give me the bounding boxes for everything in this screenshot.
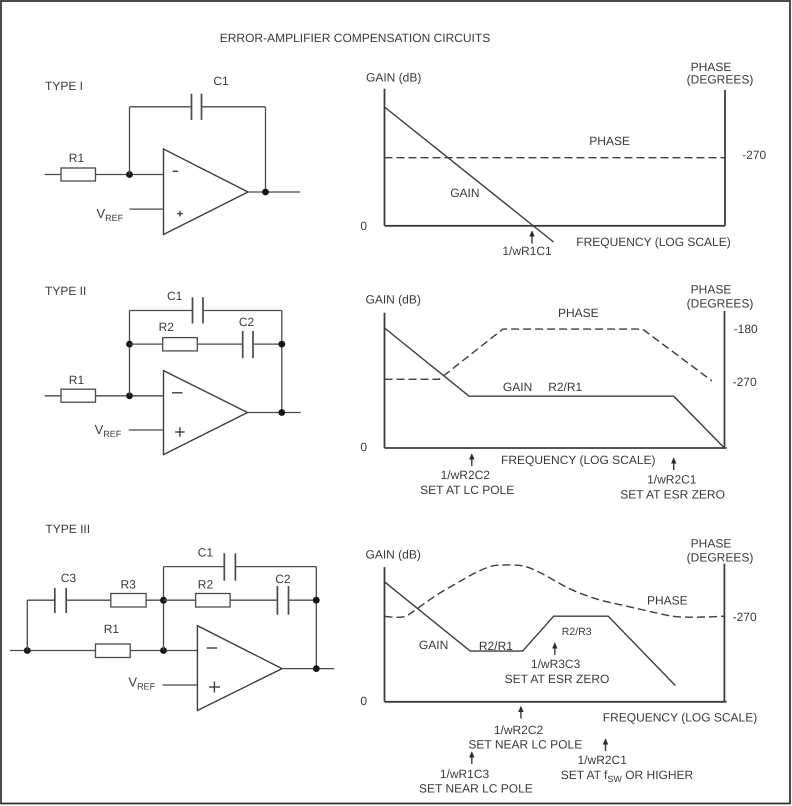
arrow at 1/wR1C3 — [469, 751, 474, 764]
capacitor C1 (type III) — [198, 546, 236, 581]
svg-text:0: 0 — [360, 440, 367, 454]
svg-text:PHASE: PHASE — [691, 283, 732, 297]
wire: top feedback right segment (III) — [235, 566, 316, 568]
resistor R1 (type III) — [96, 644, 131, 658]
wire: top feedback left segment (III) — [164, 566, 225, 568]
arrow at 1/wR2C1 — [671, 457, 676, 470]
svg-text:TYPE II: TYPE II — [45, 284, 86, 298]
arrow at 1/wR2C2 (below axis) — [518, 706, 523, 719]
wire: R3 to center node — [146, 599, 163, 601]
gain curve — [385, 107, 554, 242]
node: input junction (III) — [24, 647, 31, 654]
svg-text:-270: -270 — [733, 610, 757, 624]
frequency axis (III) — [385, 701, 727, 703]
wire: R2 to C2 (III) — [230, 599, 277, 601]
wire: VREF to non-inverting input — [130, 208, 164, 210]
svg-text:TYPE III: TYPE III — [45, 522, 90, 536]
svg-text:1/wR1C3: 1/wR1C3 — [440, 767, 490, 781]
svg-text:FREQUENCY (LOG SCALE): FREQUENCY (LOG SCALE) — [603, 711, 757, 725]
wire: C3 to R3 — [66, 599, 111, 601]
svg-text:R1: R1 — [69, 151, 85, 165]
resistor R2 — [163, 338, 198, 351]
svg-text:R2: R2 — [198, 578, 214, 592]
op-amp U3 — [197, 626, 282, 711]
svg-text:R1: R1 — [69, 373, 85, 387]
resistor R1 — [61, 168, 96, 181]
svg-text:(DEGREES): (DEGREES) — [687, 297, 754, 311]
svg-text:R2/R3: R2/R3 — [562, 626, 592, 638]
node: center upper junction (III) — [160, 597, 167, 604]
phase curve (dashed) — [385, 157, 726, 159]
node: output junction (III) — [313, 665, 320, 672]
phase axis (III) — [723, 564, 725, 702]
svg-text:0: 0 — [360, 219, 367, 233]
node A: inverting input junction — [126, 171, 133, 178]
svg-text:GAIN: GAIN — [503, 380, 532, 394]
svg-text:GAIN (dB): GAIN (dB) — [366, 293, 421, 307]
svg-text:1/wR1C1: 1/wR1C1 — [502, 244, 552, 258]
svg-text:ERROR-AMPLIFIER COMPENSATION C: ERROR-AMPLIFIER COMPENSATION CIRCUITS — [220, 31, 490, 45]
wire: node up left feedback riser — [129, 311, 131, 396]
wire: top feedback left segment (type II) — [130, 310, 193, 312]
gain curve (III) — [385, 582, 676, 686]
wire: op-amp output — [248, 191, 300, 193]
svg-text:1/wR2C1: 1/wR2C1 — [578, 753, 628, 767]
wire: feedback down to output — [265, 107, 267, 192]
svg-text:-270: -270 — [742, 148, 766, 162]
svg-text:C1: C1 — [213, 74, 229, 88]
wire: center riser (III) — [163, 567, 165, 651]
wire: input riser to C3 branch — [26, 600, 28, 650]
svg-text:GAIN (dB): GAIN (dB) — [366, 548, 421, 562]
svg-text:FREQUENCY (LOG SCALE): FREQUENCY (LOG SCALE) — [501, 453, 655, 467]
op-amp U1 — [164, 149, 249, 235]
wire: VREF to non-inverting input (III) — [163, 684, 198, 686]
wire: R1 to op-amp inverting input — [96, 174, 164, 176]
node: center lower junction (III) — [160, 647, 167, 654]
wire: R1 to op-amp (III) — [130, 650, 197, 652]
svg-text:(DEGREES): (DEGREES) — [687, 73, 754, 87]
plus sign — [177, 211, 183, 217]
plus sign (type II) — [175, 427, 184, 436]
gain axis (left vertical) — [384, 89, 386, 226]
wire: C3 branch left segment — [27, 599, 55, 601]
wire: top feedback right segment — [202, 106, 266, 108]
frequency axis (II) — [385, 447, 727, 449]
minus sign — [173, 170, 179, 172]
wire: R1 to op-amp inverting input (type II) — [96, 395, 164, 397]
svg-text:PHASE: PHASE — [647, 594, 688, 608]
svg-text:C3: C3 — [61, 571, 77, 585]
svg-text:R2/R1: R2/R1 — [548, 380, 582, 394]
plus sign (III) — [209, 682, 220, 693]
wire: R2 to C2 — [197, 343, 242, 345]
svg-text:1/wR3C3: 1/wR3C3 — [531, 657, 581, 671]
node B: output junction — [262, 189, 269, 196]
gain curve (II) — [385, 328, 725, 448]
svg-text:GAIN: GAIN — [450, 186, 479, 200]
svg-text:C2: C2 — [239, 315, 255, 329]
svg-text:C2: C2 — [275, 572, 291, 586]
wire: type II input to R1 — [45, 395, 61, 397]
gain axis (III) — [384, 567, 386, 702]
wire: right feedback riser (III) — [315, 567, 317, 669]
svg-text:SET AT ESR ZERO: SET AT ESR ZERO — [505, 672, 610, 686]
svg-text:PHASE: PHASE — [691, 537, 732, 551]
svg-text:GAIN: GAIN — [419, 638, 448, 652]
svg-text:SET AT fSW OR HIGHER: SET AT fSW OR HIGHER — [561, 768, 694, 784]
minus sign (III) — [207, 647, 218, 649]
resistor R3 — [111, 594, 146, 608]
wire: C2 to right riser (III) — [289, 599, 317, 601]
svg-text:FREQUENCY (LOG SCALE): FREQUENCY (LOG SCALE) — [576, 235, 730, 249]
gain axis (II) — [384, 313, 386, 448]
svg-text:SET NEAR LC POLE: SET NEAR LC POLE — [419, 782, 533, 796]
wire: C2 to right riser — [253, 343, 282, 345]
wire: op-amp output (III) — [282, 668, 334, 670]
svg-text:0: 0 — [360, 694, 367, 708]
resistor R1 (type II) — [61, 389, 96, 402]
svg-text:-180: -180 — [734, 322, 758, 336]
svg-text:1/wR2C1: 1/wR2C1 — [647, 473, 697, 487]
frequency axis (bottom) — [385, 225, 726, 227]
svg-text:R2: R2 — [159, 320, 175, 334]
wire: type I input to R1 — [45, 174, 61, 176]
node: right riser junction (III) — [313, 597, 320, 604]
wire: top feedback right segment (type II) — [203, 310, 282, 312]
svg-text:C1: C1 — [198, 546, 214, 560]
phase axis (II) — [724, 311, 726, 448]
svg-text:R1: R1 — [104, 622, 120, 636]
svg-text:TYPE I: TYPE I — [45, 79, 83, 93]
capacitor C3 — [55, 571, 77, 613]
wire: right feedback riser — [281, 311, 283, 413]
minus sign (type II) — [172, 392, 183, 394]
node A2: inverting junction — [126, 392, 133, 399]
svg-text:R2/R1: R2/R1 — [479, 639, 513, 653]
capacitor C2 — [239, 315, 255, 358]
node: left riser / R2 branch junction — [126, 341, 133, 348]
wire: top feedback left segment — [130, 106, 192, 108]
wire: center node to R2 (III) — [164, 599, 196, 601]
arrow at 1/wR1C1 — [529, 230, 534, 243]
arrow at 1/wR2C1 (III) — [603, 738, 608, 751]
arrow at 1/wR2C2 — [469, 453, 474, 466]
svg-text:GAIN (dB): GAIN (dB) — [366, 71, 421, 85]
resistor R2 (type III) — [196, 594, 231, 608]
svg-text:-270: -270 — [733, 375, 757, 389]
capacitor C1 (type II) — [167, 289, 203, 324]
wire: VREF to non-inverting input (type II) — [129, 429, 164, 431]
svg-text:PHASE: PHASE — [558, 306, 599, 320]
phase curve dashed (II) — [385, 329, 712, 381]
capacitor C2 (type III) — [275, 572, 291, 615]
svg-text:1/wR2C2: 1/wR2C2 — [441, 468, 491, 482]
capacitor C1 — [192, 74, 230, 120]
svg-text:SET AT ESR ZERO: SET AT ESR ZERO — [620, 488, 725, 502]
svg-text:PHASE: PHASE — [589, 134, 630, 148]
phase curve dashed (III) — [385, 565, 724, 617]
arrow at 1/wR3C3 — [552, 642, 557, 655]
wire: left node to R2 — [130, 343, 163, 345]
wire: node A up to feedback — [129, 107, 131, 175]
node: right riser / R2C2 junction — [278, 341, 285, 348]
svg-text:SET AT LC POLE: SET AT LC POLE — [420, 483, 514, 497]
phase axis (right vertical) — [724, 90, 726, 226]
svg-text:R3: R3 — [121, 578, 137, 592]
op-amp U2 — [164, 371, 248, 455]
svg-text:SET NEAR LC POLE: SET NEAR LC POLE — [468, 738, 582, 752]
svg-text:C1: C1 — [167, 289, 183, 303]
svg-text:1/wR2C2: 1/wR2C2 — [494, 723, 544, 737]
wire: type III input — [10, 650, 96, 652]
wire: op-amp output (type II) — [248, 412, 301, 414]
svg-text:(DEGREES): (DEGREES) — [687, 550, 754, 564]
node: output junction (type II) — [278, 409, 285, 416]
